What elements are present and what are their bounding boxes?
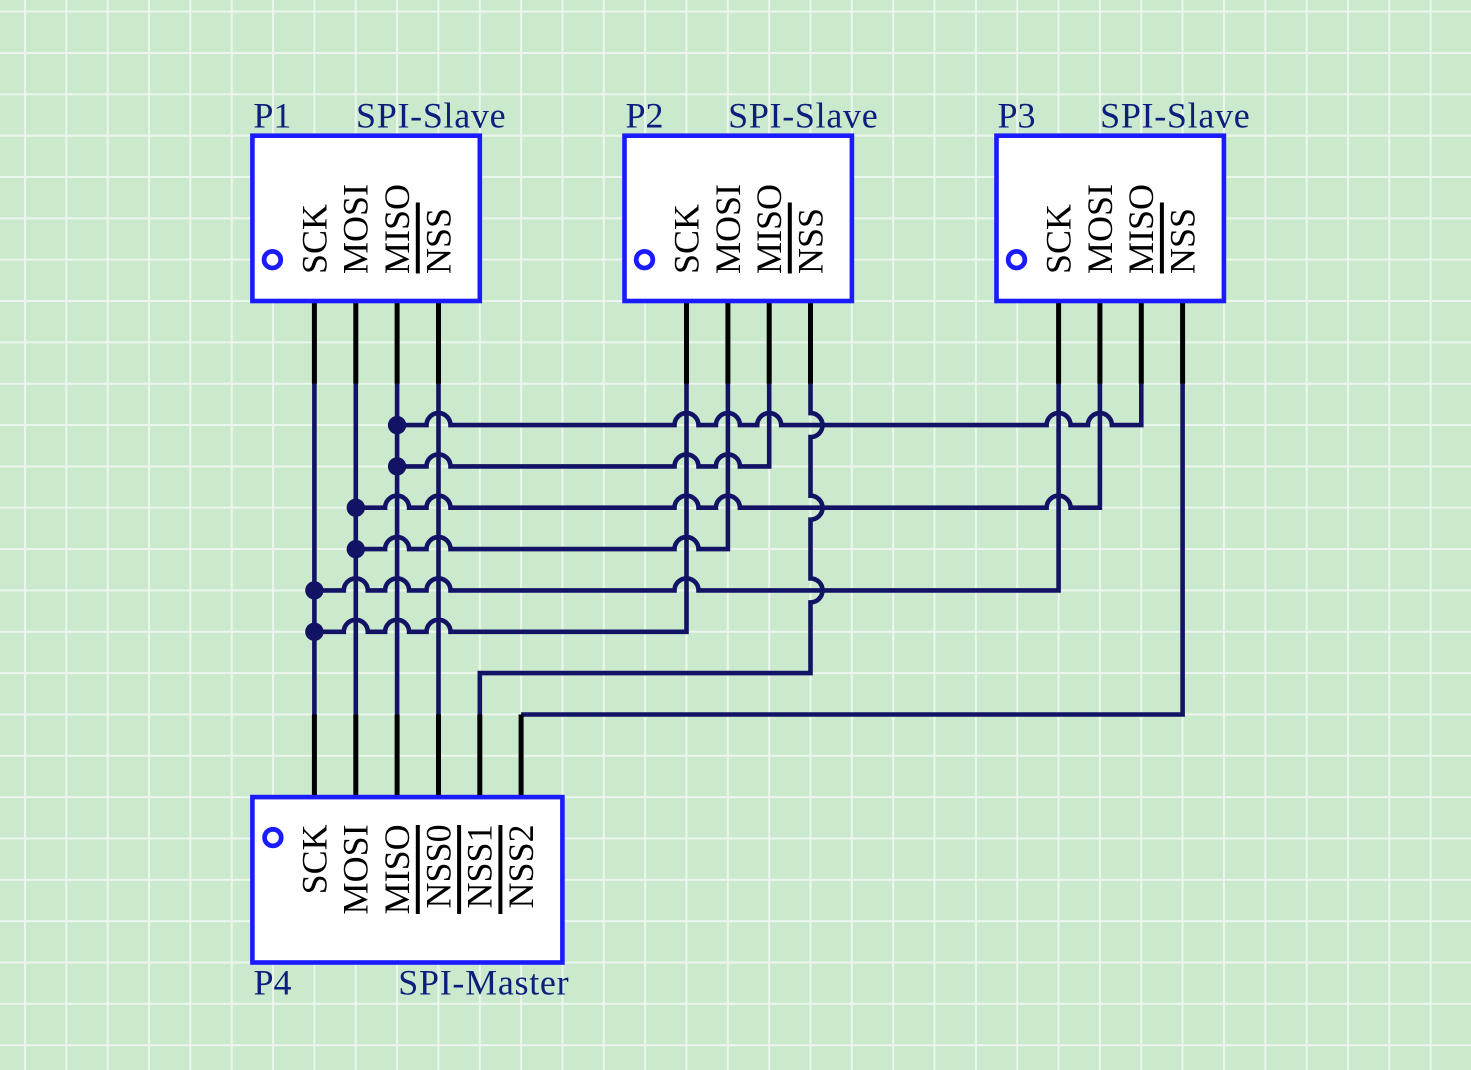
P4 NSS0 overline: [416, 825, 420, 914]
junction SCK x row5: [305, 581, 323, 599]
svg-text:SCK: SCK: [1039, 204, 1079, 274]
wire P1 SCK pin stub: [312, 301, 317, 384]
svg-text:SPI-Slave: SPI-Slave: [728, 95, 878, 135]
svg-text:NSS2: NSS2: [501, 824, 541, 908]
wire SCK net to P2 (row 6): [314, 384, 686, 632]
wire P1 MOSI pin stub: [353, 301, 358, 384]
connector P3 body: [997, 136, 1224, 301]
svg-text:MISO: MISO: [377, 824, 417, 914]
wire P2 SCK pin stub: [684, 301, 689, 384]
wire P4 MISO pin stub: [395, 715, 400, 798]
wire P3 NSS pin stub: [1180, 301, 1185, 384]
svg-text:NSS: NSS: [1163, 208, 1203, 274]
svg-text:SCK: SCK: [666, 204, 706, 274]
wire P2 MOSI pin stub: [725, 301, 730, 384]
wire MISO net vertical P1-P4: [395, 384, 400, 715]
svg-text:SPI-Slave: SPI-Slave: [356, 95, 506, 135]
wire P4 NSS2 pin stub: [519, 715, 524, 798]
svg-text:P2: P2: [626, 95, 664, 135]
wire P3 MISO pin stub: [1139, 301, 1144, 384]
wire P2 MISO pin stub: [767, 301, 772, 384]
svg-text:NSS1: NSS1: [460, 824, 500, 908]
svg-text:MOSI: MOSI: [1080, 184, 1120, 274]
wire MISO net to P2 (row 2): [397, 384, 769, 467]
wire NSS2 net P4 to P3: [521, 384, 1183, 715]
svg-text:MOSI: MOSI: [336, 824, 376, 914]
junction MOSI x row3: [347, 499, 365, 517]
wire P4 NSS1 pin stub: [477, 715, 482, 798]
wire P1 MISO pin stub: [395, 301, 400, 384]
connector P4 body: [252, 797, 562, 962]
wire MOSI net to P3 (row 3): [356, 384, 1100, 508]
junction MISO x row1: [388, 416, 406, 434]
wire P4 MOSI pin stub: [353, 715, 358, 798]
svg-text:NSS: NSS: [418, 208, 458, 274]
wire SCK net vertical P1-P4: [312, 384, 317, 715]
wire SCK net to P3 (row 5): [314, 384, 1058, 591]
svg-text:MOSI: MOSI: [336, 184, 376, 274]
junction MOSI x row4: [347, 540, 365, 558]
connector P4 pin-1 circle marker: [265, 829, 282, 846]
svg-text:P3: P3: [998, 95, 1036, 135]
wire P4 SCK pin stub: [312, 715, 317, 798]
P4 NSS1 overline: [457, 825, 461, 914]
wire P4 NSS0 pin stub: [436, 715, 441, 798]
svg-text:MISO: MISO: [749, 184, 789, 274]
connector P1 pin-1 circle marker: [264, 251, 281, 268]
svg-text:SPI-Master: SPI-Master: [398, 963, 569, 1003]
wire P3 MOSI pin stub: [1097, 301, 1102, 384]
wire MOSI net vertical P1-P4: [353, 384, 358, 715]
svg-text:MISO: MISO: [1121, 184, 1161, 274]
svg-text:SPI-Slave: SPI-Slave: [1100, 95, 1250, 135]
svg-text:NSS0: NSS0: [418, 824, 458, 908]
wire MISO net to P3 (row 1): [397, 384, 1141, 426]
connector P3 pin-1 circle marker: [1008, 251, 1025, 268]
connector P2 body: [625, 136, 852, 301]
wire P3 SCK pin stub: [1056, 301, 1061, 384]
svg-text:SCK: SCK: [294, 824, 334, 894]
wire P1 NSS pin stub: [436, 301, 441, 384]
wire MOSI net to P2 (row 4): [356, 384, 728, 549]
P2 NSS overline: [788, 203, 792, 274]
svg-text:P4: P4: [254, 963, 292, 1003]
P4 NSS2 overline: [498, 825, 502, 914]
wire NSS1 net P4 to P2: [480, 384, 823, 715]
svg-text:NSS: NSS: [790, 208, 830, 274]
junction SCK x row6: [305, 623, 323, 641]
connector P1 body: [252, 136, 479, 301]
svg-text:SCK: SCK: [294, 204, 334, 274]
wire NSS0 net vertical P1-P4: [436, 384, 441, 715]
svg-text:P1: P1: [253, 95, 291, 135]
wire P2 NSS pin stub: [808, 301, 813, 384]
P3 NSS overline: [1160, 203, 1164, 274]
junction MISO x row2: [388, 457, 406, 475]
connector P2 pin-1 circle marker: [636, 251, 653, 268]
svg-text:MISO: MISO: [377, 184, 417, 274]
P1 NSS overline: [416, 203, 420, 274]
svg-text:MOSI: MOSI: [708, 184, 748, 274]
